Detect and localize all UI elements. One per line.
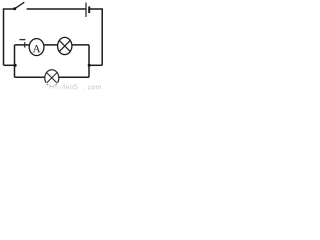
switch S blade (15, 2, 25, 9)
wire between ammeter and lamp L1 (44, 44, 58, 46)
battery long positive plate (85, 3, 87, 17)
lamp L2 cross (46, 72, 57, 83)
ammeter A circle (29, 39, 44, 56)
wire bottom branch right segment (59, 76, 89, 78)
ammeter A letter glyph (33, 45, 41, 52)
polarity minus label of ammeter (20, 39, 26, 41)
wire top-right from battery to corner and down right side (90, 9, 102, 65)
wire bottom branch left segment to lamp L2 (15, 76, 45, 78)
wire left horizontal at lower node level (4, 64, 15, 66)
wire inner right vertical between middle and bottom branches (88, 45, 90, 77)
node left junction dot (14, 64, 17, 67)
watermark left fade overlay (44, 84, 62, 92)
switch S pivot dot (13, 7, 16, 10)
watermark text (49, 84, 101, 89)
wire middle branch left segment to ammeter (15, 44, 30, 46)
lamp L1 circle (58, 37, 72, 54)
wire right horizontal at lower node level (89, 64, 102, 66)
wire left outer side and top-left segment to switch pivot (4, 9, 14, 65)
lamp L1 cross (59, 40, 70, 51)
polarity plus label of ammeter (24, 42, 26, 47)
wire top middle from switch contact to battery (27, 8, 86, 10)
lamp L2 circle (45, 70, 59, 87)
node right junction dot (88, 64, 91, 67)
wire inner left vertical between middle and bottom branches (14, 45, 16, 77)
wire middle branch right segment (72, 44, 89, 46)
lamp L2 faded lower-right arc (46, 83, 57, 87)
battery short negative plate (88, 6, 90, 13)
